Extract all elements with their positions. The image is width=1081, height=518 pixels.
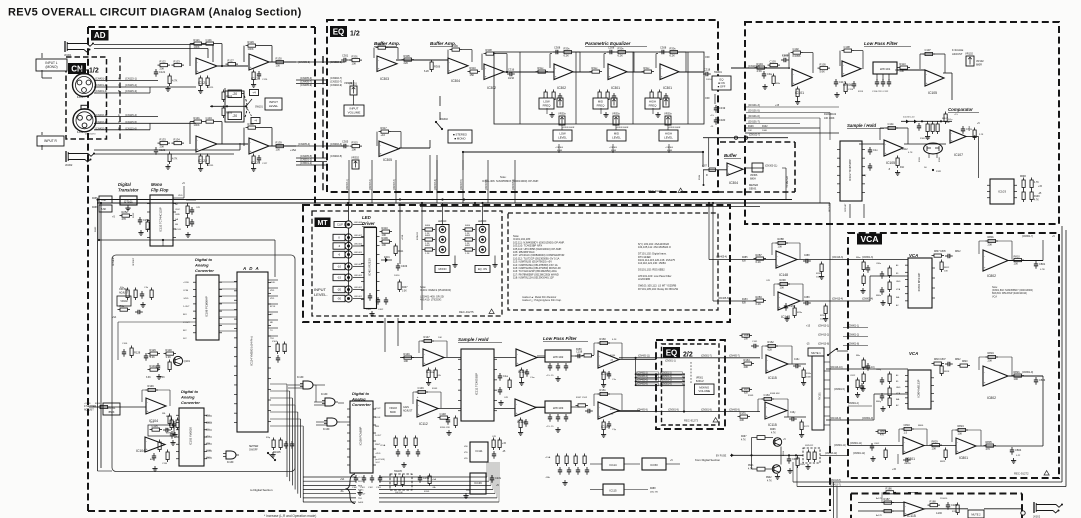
svg-text:OFF: OFF bbox=[705, 97, 710, 100]
svg-text:R801: R801 bbox=[988, 235, 995, 239]
op-amp IC801 b bbox=[956, 438, 976, 454]
svg-text:IC103: IC103 bbox=[998, 190, 1006, 194]
svg-text:F-SCALE: F-SCALE bbox=[952, 48, 964, 52]
EQ stage 3 op-amp IC301 high band bbox=[660, 64, 679, 80]
wire attenuator bbox=[224, 88, 226, 92]
svg-text:+5A: +5A bbox=[112, 316, 117, 319]
svg-text:10K: 10K bbox=[748, 130, 752, 132]
svg-text:R138: R138 bbox=[248, 122, 255, 126]
svg-text:3.3K: 3.3K bbox=[146, 377, 151, 379]
CN section label chip bbox=[68, 63, 86, 74]
svg-text:220: 220 bbox=[404, 61, 409, 65]
svg-text:(CN801-5): (CN801-5) bbox=[834, 389, 845, 391]
MT inner dashed box (LED driver) bbox=[312, 211, 502, 316]
LED LED404 indicator -10 bbox=[345, 263, 352, 270]
svg-text:R186: R186 bbox=[886, 487, 893, 491]
svg-text:+15 -15: +15 -15 bbox=[546, 426, 554, 428]
svg-text:Comparator: Comparator bbox=[948, 107, 973, 112]
svg-text:VR30x: VR30x bbox=[664, 112, 672, 116]
svg-text:C138: C138 bbox=[162, 463, 168, 465]
op-amp IC304 bbox=[448, 58, 468, 74]
svg-text:R404: R404 bbox=[425, 225, 431, 227]
svg-text:C122: C122 bbox=[159, 148, 166, 152]
svg-text:OFF: OFF bbox=[705, 56, 710, 59]
svg-text:IC102 TC4053BP: IC102 TC4053BP bbox=[848, 159, 852, 181]
svg-text:C: C bbox=[118, 120, 120, 124]
IC108 bottom components bbox=[355, 475, 357, 478]
svg-text:LEVEL: LEVEL bbox=[664, 135, 673, 139]
svg-text:R112: R112 bbox=[939, 156, 941, 162]
svg-text:R143: R143 bbox=[432, 388, 438, 390]
LED LED406 indicator -3 bbox=[345, 242, 352, 249]
svg-text:C/R: C/R bbox=[504, 397, 508, 399]
MUTE relay box bbox=[808, 348, 824, 356]
svg-text:C18x: C18x bbox=[495, 476, 502, 480]
svg-text:-30: -30 bbox=[337, 297, 341, 301]
svg-text:C110 C111 C112: C110 C111 C112 bbox=[872, 91, 889, 93]
svg-text:B50K: B50K bbox=[109, 411, 115, 414]
svg-text:VCA: VCA bbox=[896, 392, 901, 395]
svg-text:VR102: VR102 bbox=[120, 300, 128, 303]
svg-text:X101: X101 bbox=[272, 341, 278, 343]
svg-text:(CN115-5): (CN115-5) bbox=[125, 120, 137, 124]
EQ ON/OFF switch box bbox=[712, 76, 731, 90]
svg-text:R252: R252 bbox=[122, 210, 129, 214]
svg-text:A D A: A D A bbox=[242, 266, 260, 271]
svg-text:10K: 10K bbox=[778, 244, 783, 248]
svg-text:OVFL: OVFL bbox=[270, 282, 276, 284]
resistor R266 box bbox=[99, 205, 112, 212]
svg-text:MONO: MONO bbox=[438, 267, 446, 271]
svg-text:EQ. ON: EQ. ON bbox=[478, 267, 487, 271]
svg-text:C: C bbox=[118, 83, 120, 87]
svg-text:20K: 20K bbox=[900, 69, 905, 73]
svg-text:LEVEL: LEVEL bbox=[612, 135, 621, 139]
svg-text:IC148: IC148 bbox=[779, 273, 788, 277]
svg-text:+15A: +15A bbox=[290, 148, 296, 152]
main bus wire 1 bbox=[97, 199, 792, 201]
sh region long wires bbox=[745, 132, 839, 134]
to digital brace bbox=[347, 474, 356, 504]
svg-text:680R: 680R bbox=[976, 64, 982, 67]
buffer wire down bbox=[782, 167, 786, 169]
svg-text:6.2K: 6.2K bbox=[618, 54, 624, 58]
svg-text:(CN101-5): (CN101-5) bbox=[748, 110, 760, 113]
svg-text:SW105: SW105 bbox=[394, 470, 403, 473]
svg-text:-VCC: -VCC bbox=[375, 462, 380, 464]
svg-text:+: + bbox=[599, 363, 601, 367]
svg-text:-: - bbox=[517, 352, 518, 356]
EQ 2/2 outer dashed box bbox=[656, 340, 725, 429]
svg-text:IC106 PCM56HP: IC106 PCM56HP bbox=[205, 296, 209, 317]
svg-text:1-OUT: 1-OUT bbox=[183, 306, 190, 308]
svg-text:C802: C802 bbox=[874, 443, 880, 445]
IC132 vdd wire bbox=[173, 197, 184, 199]
svg-text:680H: 680H bbox=[750, 177, 756, 180]
svg-text:-: - bbox=[843, 63, 844, 67]
svg-text:(CN413-10): (CN413-10) bbox=[830, 366, 843, 369]
svg-text:110,116,122,130: 15084: 110,116,122,130: 15084 bbox=[638, 261, 666, 265]
svg-text:marked △: Polypropylene Film: marked △: Polypropylene Film Cap. bbox=[522, 299, 562, 302]
svg-text:EQ: EQ bbox=[720, 77, 724, 81]
op-amp IC123 second stage bbox=[249, 138, 269, 154]
IC104b network bbox=[148, 425, 174, 436]
svg-text:VCA: VCA bbox=[861, 234, 879, 244]
vertical wires from EQ to SH bbox=[417, 192, 419, 349]
svg-text:IC139: IC139 bbox=[227, 461, 234, 464]
svg-text:R901: R901 bbox=[748, 465, 754, 467]
svg-text:1.5: 1.5 bbox=[904, 430, 908, 434]
svg-text:ADJUST: ADJUST bbox=[403, 410, 413, 413]
bottom digital section dashed box edges bbox=[88, 510, 830, 512]
feedback IC148a bbox=[771, 243, 773, 255]
svg-text:MUTE 2: MUTE 2 bbox=[971, 514, 981, 517]
MT vertical feed wires bbox=[399, 203, 401, 264]
svg-text:C812: C812 bbox=[850, 375, 856, 377]
svg-text:R3xx: R3xx bbox=[592, 66, 599, 70]
svg-text:IC803 M5133P: IC803 M5133P bbox=[917, 273, 921, 292]
svg-text:IC301: IC301 bbox=[611, 86, 620, 90]
power IC row bbox=[470, 442, 488, 462]
wire sh row2 bbox=[438, 408, 461, 410]
svg-text:(55) 1W: (55) 1W bbox=[650, 492, 659, 494]
svg-text:R820: R820 bbox=[962, 361, 968, 363]
main bus wire 2 bbox=[97, 202, 830, 204]
svg-text:6.2K: 6.2K bbox=[670, 54, 676, 58]
svg-text:+5A: +5A bbox=[340, 478, 345, 481]
svg-text:+: + bbox=[197, 147, 199, 151]
svg-text:B-8KxZ: B-8KxZ bbox=[696, 381, 704, 383]
svg-text:SW301: SW301 bbox=[714, 71, 723, 74]
svg-text:6.2K: 6.2K bbox=[564, 54, 570, 58]
svg-text:+: + bbox=[728, 171, 730, 175]
bus junction dots bbox=[347, 202, 349, 204]
svg-text:R161: R161 bbox=[600, 388, 607, 392]
svg-text:MUTE 1: MUTE 1 bbox=[811, 351, 821, 355]
svg-text:10K: 10K bbox=[958, 431, 963, 435]
svg-text:0.0056: 0.0056 bbox=[782, 55, 789, 57]
svg-text:R106: R106 bbox=[95, 403, 101, 405]
svg-text:R310: R310 bbox=[470, 66, 477, 70]
svg-text:(CN501-7): (CN501-7) bbox=[701, 356, 712, 358]
svg-text:(CN115-3): (CN115-3) bbox=[125, 89, 137, 93]
svg-text:-: - bbox=[146, 439, 147, 443]
svg-text:C801: C801 bbox=[1039, 262, 1046, 266]
svg-text:4.7K: 4.7K bbox=[172, 156, 178, 160]
svg-text:-20: -20 bbox=[232, 92, 237, 96]
svg-text:6.2K: 6.2K bbox=[424, 70, 429, 73]
svg-text:R128: R128 bbox=[134, 350, 141, 354]
EQ stage 2 op-amp IC301 mid band bbox=[608, 64, 627, 80]
output section dashed box top edge bbox=[851, 493, 1022, 495]
wire jack L to input bbox=[41, 53, 43, 58]
LED group LED410 mono indicator bbox=[436, 225, 449, 256]
svg-text:-: - bbox=[418, 403, 419, 407]
wire mono switch bbox=[429, 140, 431, 148]
svg-text:SETHER: SETHER bbox=[249, 446, 259, 448]
svg-text:VR302: VR302 bbox=[351, 156, 359, 160]
svg-text:(CN401-1): (CN401-1) bbox=[95, 77, 107, 81]
VCA section label chip bbox=[857, 234, 882, 245]
svg-text:-: - bbox=[728, 164, 729, 168]
IC115a out parts bbox=[788, 363, 806, 365]
svg-text:-: - bbox=[767, 358, 768, 362]
svg-text:(CN401-2): (CN401-2) bbox=[95, 83, 107, 87]
svg-text:(CN413-3): (CN413-3) bbox=[832, 256, 843, 259]
svg-text:CN: CN bbox=[71, 65, 83, 74]
svg-text:+: + bbox=[555, 75, 557, 79]
svg-text:R822: R822 bbox=[955, 359, 961, 361]
svg-text:Sample / Hold: Sample / Hold bbox=[847, 123, 876, 128]
svg-text:R983: R983 bbox=[95, 226, 97, 232]
svg-text:+: + bbox=[951, 138, 953, 142]
LED LED403 indicator -15 bbox=[345, 274, 352, 281]
svg-text:C308: C308 bbox=[660, 46, 667, 50]
svg-text:R113: R113 bbox=[900, 62, 907, 66]
svg-text:-: - bbox=[380, 143, 381, 147]
wire IC801b out bbox=[976, 445, 1043, 447]
svg-text:(CN303-1): (CN303-1) bbox=[347, 179, 349, 190]
svg-text:C103: C103 bbox=[770, 59, 777, 63]
feedback IC109b bbox=[593, 394, 595, 406]
led group wires bbox=[442, 203, 444, 224]
svg-text:LED405: LED405 bbox=[354, 252, 363, 254]
svg-text:C127: C127 bbox=[262, 163, 268, 165]
svg-text:5.6K: 5.6K bbox=[101, 208, 106, 211]
svg-text:C1a: C1a bbox=[503, 374, 508, 378]
svg-text:(CN101-7): (CN101-7) bbox=[748, 121, 760, 124]
svg-text:100K: 100K bbox=[194, 123, 200, 127]
svg-text:LEVEL: LEVEL bbox=[558, 135, 567, 139]
svg-text:REC-91272: REC-91272 bbox=[1014, 472, 1029, 476]
svg-text:(CN801-12): (CN801-12) bbox=[853, 453, 865, 455]
wire IC802a out bbox=[1008, 260, 1043, 262]
svg-text:R823: R823 bbox=[940, 461, 946, 463]
svg-text:SYNC: SYNC bbox=[358, 490, 364, 492]
svg-text:(CN501-9): (CN501-9) bbox=[701, 409, 712, 411]
svg-text:+: + bbox=[885, 151, 887, 155]
svg-text:R283: R283 bbox=[756, 295, 763, 299]
svg-text:4.7K: 4.7K bbox=[1034, 182, 1039, 184]
svg-text:R30x: R30x bbox=[670, 46, 677, 50]
feedback IC148b bbox=[773, 284, 775, 296]
svg-text:R1c: R1c bbox=[120, 304, 125, 308]
svg-text:2200/16: 2200/16 bbox=[940, 498, 948, 500]
transistor Q111 bbox=[772, 465, 780, 473]
svg-text:+R309 600R: +R309 600R bbox=[562, 127, 575, 129]
svg-text:+: + bbox=[197, 69, 199, 73]
svg-text:R159: R159 bbox=[424, 491, 430, 493]
svg-text:VR309: VR309 bbox=[344, 81, 352, 85]
svg-text:+: + bbox=[777, 263, 779, 267]
STEREO MONO label box bbox=[448, 130, 472, 143]
svg-text:Driver: Driver bbox=[362, 221, 375, 226]
svg-text:+: + bbox=[424, 361, 426, 365]
svg-text:-: - bbox=[905, 504, 906, 508]
svg-text:LPF103: LPF103 bbox=[553, 406, 564, 410]
svg-text:(CN801-4): (CN801-4) bbox=[848, 403, 859, 405]
VR102 pot bbox=[966, 56, 974, 66]
svg-text:(CN801-8): (CN801-8) bbox=[848, 343, 859, 346]
svg-text:-15: -15 bbox=[337, 276, 341, 280]
LPF pins bottom bbox=[876, 74, 878, 80]
svg-text:ADJUST: ADJUST bbox=[84, 409, 94, 412]
svg-text:LF20C986: LF20C986 bbox=[638, 277, 651, 281]
svg-text:Digital to: Digital to bbox=[352, 391, 370, 396]
svg-text:C116: C116 bbox=[848, 89, 854, 91]
svg-text:+: + bbox=[418, 412, 420, 416]
svg-text:20K: 20K bbox=[988, 358, 993, 362]
svg-text:GND: GND bbox=[175, 214, 180, 216]
svg-text:R139: R139 bbox=[276, 140, 283, 144]
svg-text:(CN303-5): (CN303-5) bbox=[461, 179, 463, 190]
INPUT R label box bbox=[37, 136, 64, 146]
op-amp IC801 a bbox=[903, 437, 924, 454]
wire IC802b out bbox=[1008, 375, 1043, 377]
bottom long wire 2 bbox=[797, 486, 1066, 488]
op-amp IC148 a bbox=[776, 251, 797, 268]
svg-text:R122: R122 bbox=[160, 59, 167, 63]
svg-text:DS101,102: RD5.6EB2: DS101,102: RD5.6EB2 bbox=[638, 268, 665, 272]
svg-text:RY101: RY101 bbox=[819, 392, 822, 400]
power input parts bbox=[397, 449, 399, 452]
output jack circle bbox=[1021, 511, 1025, 515]
svg-text:10K: 10K bbox=[352, 62, 357, 66]
svg-text:(CN115-1): (CN115-1) bbox=[125, 77, 137, 81]
svg-text:VR501: VR501 bbox=[696, 378, 704, 380]
svg-text:(CN405-4): (CN405-4) bbox=[298, 142, 310, 146]
svg-text:Buffer: Buffer bbox=[724, 153, 737, 158]
svg-text:R146: R146 bbox=[148, 384, 155, 388]
svg-text:C9a: C9a bbox=[767, 72, 772, 76]
svg-text:(CN302-9): (CN302-9) bbox=[330, 83, 342, 87]
svg-text:C148: C148 bbox=[440, 412, 447, 416]
svg-text:VCA: VCA bbox=[909, 351, 918, 356]
svg-text:LED401: LED401 bbox=[354, 296, 363, 298]
svg-text:VCA: VCA bbox=[909, 253, 918, 258]
svg-text:R171: R171 bbox=[740, 411, 747, 415]
svg-text:C/R: C/R bbox=[766, 280, 770, 282]
svg-text:(CN405-7): (CN405-7) bbox=[729, 356, 740, 358]
op-amp IC121 first stage bbox=[196, 58, 217, 74]
svg-text:C308: C308 bbox=[554, 46, 561, 50]
svg-text:-: - bbox=[378, 58, 379, 62]
svg-text:R130: R130 bbox=[276, 56, 283, 60]
svg-text:+10: +10 bbox=[381, 133, 386, 137]
svg-text:IC401 IR2E19: IC401 IR2E19 bbox=[367, 258, 371, 276]
svg-text:+: + bbox=[517, 361, 519, 365]
svg-text:10/16: 10/16 bbox=[508, 77, 515, 80]
svg-text:IC801: IC801 bbox=[959, 456, 968, 460]
EQ22 bottom wire bbox=[617, 411, 760, 413]
svg-text:C252: C252 bbox=[143, 218, 150, 222]
wires AD-EQ boundary mid bbox=[296, 61, 345, 63]
svg-text:Converter: Converter bbox=[352, 402, 371, 407]
op-amp IC802 a bbox=[983, 250, 1008, 271]
svg-text:SETHER: SETHER bbox=[113, 257, 115, 266]
op-amp IC112 sh2 bbox=[415, 397, 417, 399]
svg-text:LB02B: LB02B bbox=[904, 463, 911, 465]
wire IC303 out bbox=[396, 59, 449, 61]
op-amp IC115 a bbox=[766, 355, 788, 373]
svg-text:MD: MD bbox=[270, 322, 274, 324]
INPUT LEVEL label box bbox=[265, 98, 282, 110]
svg-text:(to IC109): (to IC109) bbox=[375, 458, 385, 461]
svg-text:VR103: VR103 bbox=[389, 407, 397, 410]
analog switch IC111 chip bbox=[461, 349, 494, 421]
output wire row 1 bbox=[858, 502, 904, 504]
svg-text:VCA: VCA bbox=[896, 288, 901, 291]
svg-text:10K: 10K bbox=[352, 148, 357, 152]
power IC139 box bbox=[470, 473, 486, 494]
output wire row 2 bbox=[858, 510, 904, 512]
svg-text:-: - bbox=[609, 66, 610, 70]
svg-text:IC804 M5133P: IC804 M5133P bbox=[917, 379, 921, 397]
svg-text:REC-91275: REC-91275 bbox=[648, 189, 663, 193]
svg-text:803,804: M5133SP (0A0190: 803,804: M5133SP (0A0190010) bbox=[992, 292, 1027, 295]
svg-text:FREQ: FREQ bbox=[597, 103, 606, 107]
svg-text:10/16: 10/16 bbox=[706, 79, 712, 81]
op-amp IC105 sample hold bbox=[884, 140, 903, 156]
svg-text:■ ON: ■ ON bbox=[718, 81, 724, 85]
VCA section dashed box bbox=[848, 233, 1059, 478]
svg-text:B/O: B/O bbox=[183, 314, 187, 316]
svg-text:(CN501-9): (CN501-9) bbox=[668, 409, 679, 411]
svg-text:from Digital Section: from Digital Section bbox=[695, 458, 720, 462]
svg-text:R292: R292 bbox=[820, 315, 826, 317]
svg-text:R148: R148 bbox=[610, 409, 616, 411]
svg-text:IC114: IC114 bbox=[609, 463, 617, 467]
comparator transistor pair bbox=[924, 143, 943, 154]
svg-text:100: 100 bbox=[1014, 377, 1019, 381]
svg-text:+15: +15 bbox=[775, 104, 780, 107]
svg-text:1/2: 1/2 bbox=[350, 31, 360, 38]
svg-text:R288: R288 bbox=[778, 237, 785, 241]
svg-text:IC115: IC115 bbox=[609, 489, 617, 493]
svg-text:R402: R402 bbox=[465, 245, 471, 247]
svg-text:C/R: C/R bbox=[492, 436, 496, 438]
svg-text:+: + bbox=[779, 305, 781, 309]
svg-text:6.2K: 6.2K bbox=[612, 339, 617, 341]
svg-text:EQ: EQ bbox=[333, 28, 345, 37]
svg-text:+VR305: +VR305 bbox=[609, 147, 618, 149]
svg-text:(MONO): (MONO) bbox=[45, 65, 57, 69]
svg-text:-: - bbox=[555, 66, 556, 70]
svg-text:C804: C804 bbox=[1015, 448, 1022, 452]
svg-text:COM: COM bbox=[183, 290, 188, 292]
svg-text:■ OFF: ■ OFF bbox=[718, 84, 726, 88]
svg-text:+VDD: +VDD bbox=[183, 282, 189, 284]
wire vr down bbox=[353, 80, 355, 86]
svg-text:ADJUST: ADJUST bbox=[952, 52, 963, 56]
svg-text:FREQ: FREQ bbox=[543, 103, 552, 107]
svg-text:R290: R290 bbox=[780, 278, 787, 282]
svg-text:R150 C/R: R150 C/R bbox=[440, 427, 450, 429]
svg-text:(CN801-11): (CN801-11) bbox=[850, 443, 862, 445]
and gate IC139 a bbox=[226, 451, 236, 459]
attenuator pad -20 R bbox=[228, 112, 242, 120]
svg-text:VR30x: VR30x bbox=[558, 112, 566, 116]
svg-text:+5A: +5A bbox=[432, 478, 436, 481]
LPF103 module bbox=[545, 401, 571, 413]
op-amp IC802 b bbox=[983, 366, 1008, 386]
op-amp IC115 b bbox=[765, 402, 787, 419]
phone jack JK301 bbox=[64, 41, 66, 52]
svg-text:+: + bbox=[793, 81, 795, 85]
svg-text:R829: R829 bbox=[932, 439, 939, 443]
svg-text:-: - bbox=[661, 66, 662, 70]
svg-text:-: - bbox=[449, 60, 450, 64]
